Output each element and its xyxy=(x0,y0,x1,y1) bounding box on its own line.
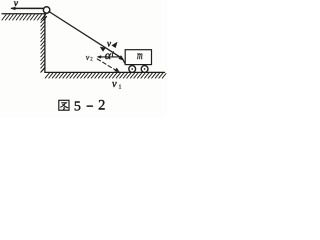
small solid arrow mark pointing up-right above rope xyxy=(112,42,118,48)
horizontal velocity arrow pointing left xyxy=(100,56,122,58)
rope tail into cart corner xyxy=(122,59,125,64)
svg-text:2: 2 xyxy=(90,58,93,63)
svg-text:v: v xyxy=(86,53,90,62)
rope top horizontal segment xyxy=(12,7,47,9)
caption glyph "tu" (figure) drawn as path xyxy=(59,100,69,110)
junction arrowhead on rope pointing down-right xyxy=(119,55,125,61)
ground hatching xyxy=(45,73,166,78)
cart body xyxy=(125,50,151,65)
left wheel xyxy=(129,66,136,73)
svg-text:1: 1 xyxy=(119,85,122,91)
arrowhead of velocity v along rope (pointing up-left toward pulley) xyxy=(100,47,106,52)
ledge top surface line xyxy=(2,13,45,15)
wall hatching xyxy=(41,18,45,72)
rope diagonal segment xyxy=(49,12,123,59)
svg-text:α: α xyxy=(105,48,112,62)
pulley xyxy=(43,7,50,14)
right wheel xyxy=(141,66,148,73)
dashed component arrow parallel to rope pointing down-right xyxy=(97,59,116,71)
rope pull arrowhead pointing left xyxy=(11,7,16,11)
svg-text:v: v xyxy=(14,0,19,9)
svg-text:v: v xyxy=(112,79,117,90)
ledge hatching xyxy=(2,14,47,20)
ground line xyxy=(45,71,165,73)
svg-text:2: 2 xyxy=(98,98,105,114)
svg-text:m: m xyxy=(137,49,143,62)
angle alpha arc xyxy=(112,52,113,57)
wall vertical line xyxy=(44,14,46,73)
svg-text:5: 5 xyxy=(74,100,81,115)
